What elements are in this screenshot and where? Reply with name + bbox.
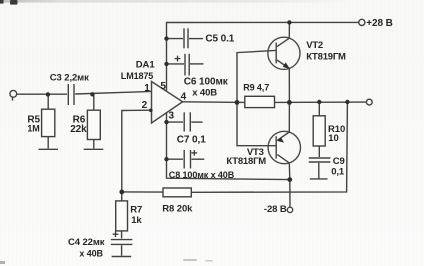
svg-text:R8 20k: R8 20k	[162, 204, 193, 215]
svg-text:КТ818ГМ: КТ818ГМ	[226, 156, 266, 167]
svg-text:0,1: 0,1	[331, 166, 345, 177]
svg-text:1M: 1M	[27, 124, 39, 134]
svg-text:C7 0,1: C7 0,1	[177, 135, 206, 146]
svg-text:КТ819ГМ: КТ819ГМ	[306, 51, 346, 62]
svg-text:5: 5	[160, 81, 166, 92]
svg-text:-28 В: -28 В	[264, 204, 287, 215]
svg-text:LM1875: LM1875	[121, 71, 154, 81]
svg-text:+28 В: +28 В	[366, 18, 392, 29]
svg-text:R9 4,7: R9 4,7	[243, 83, 269, 93]
svg-text:DA1: DA1	[136, 60, 156, 71]
svg-text:2: 2	[142, 100, 148, 111]
svg-text:1k: 1k	[131, 215, 142, 226]
svg-text:C6 100мк: C6 100мк	[184, 77, 229, 88]
svg-text:C9: C9	[333, 156, 345, 167]
svg-text:R7: R7	[130, 205, 142, 216]
svg-text:10: 10	[328, 133, 338, 144]
svg-text:3: 3	[169, 111, 175, 122]
svg-text:x 40В: x 40В	[192, 87, 217, 98]
svg-text:4: 4	[181, 92, 187, 103]
svg-text:C4 22мк: C4 22мк	[68, 237, 105, 248]
svg-text:C3 2,2мк: C3 2,2мк	[50, 72, 89, 83]
svg-text:x 40В: x 40В	[79, 248, 103, 258]
svg-text:22k: 22k	[70, 124, 87, 135]
svg-text:VT2: VT2	[306, 40, 323, 51]
svg-text:C5 0.1: C5 0.1	[205, 34, 234, 45]
svg-text:1: 1	[144, 83, 150, 94]
svg-text:C8 100мк x 40В: C8 100мк x 40В	[169, 170, 235, 180]
